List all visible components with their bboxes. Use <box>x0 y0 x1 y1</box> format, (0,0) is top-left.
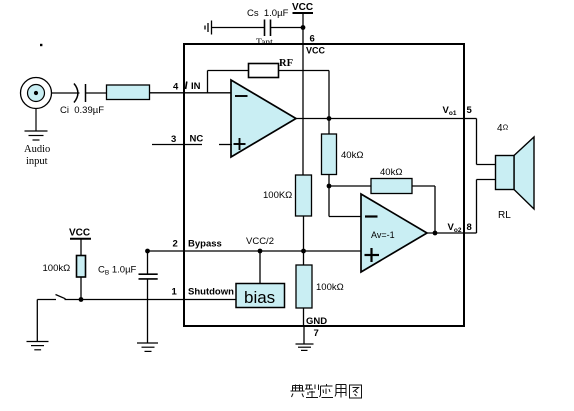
svg-text:bias: bias <box>244 288 275 307</box>
resistor Ri <box>107 85 150 100</box>
IC package box U1 <box>184 44 464 326</box>
svg-text:6: 6 <box>310 34 315 45</box>
VCC supply symbol (left) <box>69 228 91 256</box>
switch S1 <box>37 295 81 300</box>
bias block <box>236 284 285 308</box>
wire: NC pin 3 stub <box>152 144 202 146</box>
svg-text:100KΩ: 100KΩ <box>263 190 292 201</box>
capacitor CB <box>139 251 158 343</box>
wire: U1B output to pin 8 <box>427 232 464 234</box>
svg-text:input: input <box>26 156 48 167</box>
resistor 100k (lower divider) <box>296 265 312 308</box>
svg-text:7: 7 <box>314 328 319 339</box>
svg-text:RF: RF <box>279 58 293 69</box>
node: VCC/2 tap <box>258 249 263 254</box>
svg-text:4Ω: 4Ω <box>497 123 509 135</box>
node: output/feedback junction <box>327 116 332 121</box>
svg-text:VCC: VCC <box>306 46 326 56</box>
node: U1B inverting input junction <box>327 184 332 189</box>
wire: junction to 40k feedback resistor <box>329 185 371 187</box>
wire: Ci to Ri <box>86 92 107 94</box>
node: bypass left end <box>145 249 150 254</box>
node: shutdown junction <box>79 297 84 302</box>
svg-text:5: 5 <box>467 105 473 116</box>
svg-text:Vo1: Vo1 <box>443 105 457 117</box>
resistor 40k (feedback, horizontal) <box>371 179 412 194</box>
wire: bypass rail pin 2 <box>148 250 362 252</box>
wire: 100K to bypass rail <box>303 216 305 251</box>
char 图 <box>350 385 362 398</box>
op-amp U1A <box>231 80 296 157</box>
svg-text:NC: NC <box>190 134 204 145</box>
svg-text:40kΩ: 40kΩ <box>380 167 402 178</box>
wire: 100k to shutdown node <box>80 277 82 300</box>
speaker RL <box>496 137 535 209</box>
ground (pin 7) <box>296 344 314 350</box>
svg-text:100kΩ: 100kΩ <box>43 263 71 274</box>
stray dot mark <box>40 44 42 46</box>
wire: GND pin 7 <box>303 326 305 344</box>
node: VCC/Cs junction <box>301 25 306 30</box>
char 用 <box>335 385 346 398</box>
wire: Cs right plate to VCC node <box>271 27 304 29</box>
ground (audio jack) <box>25 109 48 141</box>
wire: Ri to op-amp U1A inverting input (pin 4 IN) <box>150 92 232 94</box>
svg-text:3: 3 <box>171 134 176 145</box>
capacitor Cs <box>265 20 271 37</box>
svg-text:Bypass: Bypass <box>188 239 222 250</box>
wire: Cs ground to Cs left plate <box>212 27 265 29</box>
resistor RF <box>249 64 279 78</box>
svg-text:Shutdown: Shutdown <box>188 287 234 298</box>
wire: RF right to output node <box>279 70 330 72</box>
node: divider center <box>301 249 306 254</box>
plus sign U1B <box>365 248 380 262</box>
resistor 40k (vertical) <box>322 119 337 187</box>
resistor 100k (shutdown pull-up) <box>77 256 86 278</box>
svg-text:VCC: VCC <box>292 2 313 13</box>
svg-text:CB 1.0µF: CB 1.0µF <box>98 265 137 277</box>
wire: bypass to 100k <box>303 251 305 265</box>
ground (switch) <box>27 342 49 350</box>
svg-text:40kΩ: 40kΩ <box>341 150 363 161</box>
wire: pin 6 VCC rail down to divider <box>302 28 304 176</box>
svg-text:2: 2 <box>173 239 178 250</box>
wire: jack to Ci <box>52 92 80 94</box>
svg-text:8: 8 <box>467 222 472 233</box>
svg-text:IN: IN <box>191 81 201 92</box>
wire: feedback to Vo2 node <box>412 186 435 233</box>
svg-text:Audio: Audio <box>24 144 50 155</box>
wire: junction down to U1B minus input <box>329 186 361 217</box>
char 应 <box>320 384 334 398</box>
node: Vo2 feedback junction <box>433 231 438 236</box>
wire: down to output junction <box>328 71 330 119</box>
plus sign U1A <box>234 138 246 150</box>
char 典 <box>291 385 305 398</box>
minus sign U1B <box>365 215 378 217</box>
svg-text:VCC: VCC <box>69 228 90 239</box>
op-amp U1B <box>361 194 427 272</box>
svg-text:100kΩ: 100kΩ <box>316 282 344 293</box>
char 型 <box>305 385 319 398</box>
wire: IN node up to RF <box>207 71 209 93</box>
svg-text:RL: RL <box>498 210 511 221</box>
svg-text:GND: GND <box>306 316 327 327</box>
svg-text:Tant: Tant <box>256 38 273 48</box>
wire: U1A output to Vo1 pin 5 <box>296 118 464 120</box>
wire: 100k to GND rail <box>303 308 305 326</box>
svg-text:4: 4 <box>173 82 179 93</box>
wire: VCC/2 tap down to bias <box>259 251 261 284</box>
svg-text:Cs 1.0µF: Cs 1.0µF <box>247 8 289 19</box>
caption 典型应用图 (drawn strokes) <box>291 384 362 398</box>
wire: shutdown to bias <box>81 299 236 301</box>
wire: pin 5 to speaker top <box>464 119 496 165</box>
pin 4 arrow tick <box>186 82 187 90</box>
svg-text:VCC/2: VCC/2 <box>246 236 274 247</box>
wire: pin 8 to speaker bottom <box>464 180 496 234</box>
ground (CB) <box>137 343 158 351</box>
minus sign U1A <box>235 95 248 97</box>
ground (Cs left, small rotated ground) <box>205 21 212 35</box>
svg-text:Vo2: Vo2 <box>448 222 462 234</box>
svg-text:Ci 0.39µF: Ci 0.39µF <box>60 105 104 116</box>
resistor 100K (upper divider) <box>296 175 312 216</box>
capacitor Ci <box>74 84 86 103</box>
wire: switch to ground <box>36 300 38 342</box>
wire: to RF left <box>208 70 249 72</box>
wire: U1A plus input stub <box>219 144 232 146</box>
VCC supply symbol (top) <box>292 2 313 28</box>
svg-text:1: 1 <box>172 287 178 298</box>
connector J1 audio jack <box>21 78 52 109</box>
svg-text:Av=-1: Av=-1 <box>371 230 395 240</box>
